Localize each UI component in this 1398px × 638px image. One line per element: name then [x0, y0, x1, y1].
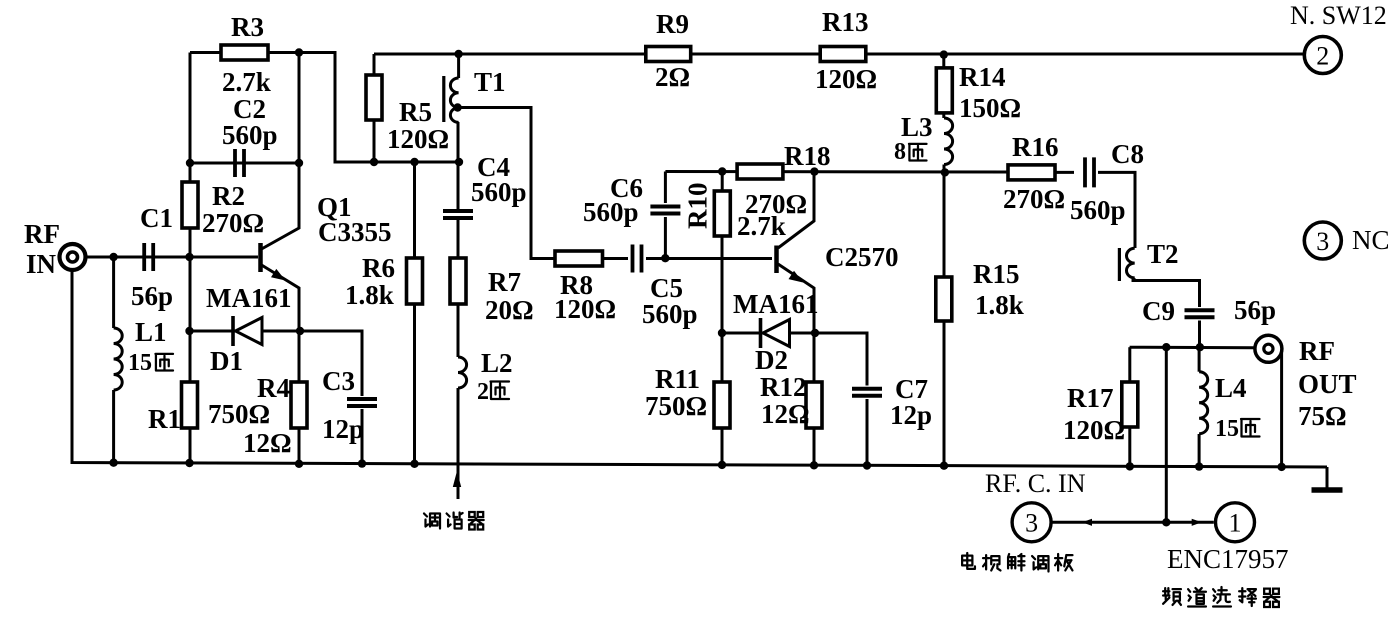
junction R18 left	[718, 167, 726, 175]
svg-text:MA161: MA161	[206, 283, 291, 313]
junction base/R2	[185, 253, 193, 261]
rail junction R15	[940, 462, 948, 470]
junction D1/emitter	[296, 327, 304, 335]
svg-text:ENC17957: ENC17957	[1167, 544, 1289, 574]
svg-text:560p: 560p	[642, 299, 698, 329]
svg-text:560p: 560p	[222, 120, 278, 150]
svg-text:L3: L3	[901, 112, 933, 142]
resistor R8	[555, 251, 603, 266]
svg-text:R7: R7	[488, 267, 521, 297]
wire R10 bottom crossing base	[721, 236, 724, 333]
arrow toward terminal 1	[1192, 519, 1202, 526]
wire C3 bottom	[361, 409, 364, 464]
junction top rail T1	[454, 50, 462, 58]
svg-text:RF. C. IN: RF. C. IN	[985, 469, 1086, 498]
svg-text:2.7k: 2.7k	[737, 211, 786, 241]
wire R6 top	[413, 162, 416, 258]
wire R14 top	[942, 55, 945, 68]
svg-text:C1: C1	[140, 203, 173, 233]
inductor L1	[114, 328, 123, 390]
wire R15 top	[943, 172, 946, 277]
rail junction C3	[358, 459, 366, 467]
svg-text:R11: R11	[655, 364, 700, 394]
wire pin1 net vertical	[1165, 347, 1168, 522]
svg-text:C3: C3	[322, 366, 355, 396]
label L2 value zha	[491, 382, 510, 400]
wire D1 net to C3	[190, 331, 363, 396]
svg-text:R3: R3	[231, 12, 264, 42]
label L1 value zha	[155, 354, 173, 371]
rail junction L4	[1195, 462, 1203, 470]
svg-text:R9: R9	[656, 9, 689, 39]
resistor R14	[936, 68, 952, 113]
wire R3 line to bias bus	[190, 53, 459, 163]
resistor R1	[182, 382, 198, 428]
transistor Q1 emitter arrow	[271, 269, 286, 281]
resistor R3	[221, 45, 268, 60]
terminal 1 ENC17957	[1216, 503, 1255, 542]
svg-text:120Ω: 120Ω	[815, 64, 877, 94]
wire R14 to L3	[942, 113, 945, 118]
svg-text:R5: R5	[399, 97, 432, 127]
svg-text:1: 1	[1229, 509, 1242, 538]
label L3 value zha	[909, 144, 927, 161]
wire L1 bottom	[112, 390, 115, 463]
svg-text:R13: R13	[822, 7, 869, 37]
svg-text:R2: R2	[212, 181, 245, 211]
svg-text:120Ω: 120Ω	[387, 124, 449, 154]
wire R10 top	[721, 172, 724, 192]
wire left branch x=190 (R2/R1 chain)	[189, 53, 192, 464]
wire R8 to C5	[603, 257, 629, 260]
svg-text:15: 15	[128, 350, 152, 376]
svg-text:560p: 560p	[1070, 195, 1126, 225]
junction C5/C6	[661, 254, 669, 262]
capacitor C2	[235, 149, 244, 177]
svg-text:R17: R17	[1067, 383, 1114, 413]
wire R18 bias net	[665, 170, 1008, 174]
wire Q2 collector	[778, 172, 814, 248]
terminal 3 RF.C.IN	[1012, 503, 1051, 542]
wire C7 bottom	[866, 399, 869, 466]
svg-text:L4: L4	[1215, 373, 1247, 403]
capacitor C3	[347, 399, 377, 406]
svg-text:R12: R12	[760, 372, 807, 402]
resistor R7	[450, 258, 466, 304]
rail junction R1	[185, 459, 193, 467]
wire Q1 base net	[86, 256, 259, 259]
svg-text:15: 15	[1215, 416, 1239, 442]
svg-text:C8: C8	[1111, 139, 1144, 169]
resistor R4	[291, 382, 307, 428]
wire C5 to Q2 base	[646, 257, 772, 260]
transformer T1 winding	[450, 78, 458, 122]
wire R12 bottom	[813, 428, 816, 465]
svg-text:75Ω: 75Ω	[1298, 401, 1347, 431]
RF IN connector	[60, 244, 86, 270]
wire Q1 emitter to rail	[262, 265, 300, 464]
svg-text:12p: 12p	[322, 414, 364, 444]
resistor R15	[936, 277, 952, 321]
svg-text:L1: L1	[135, 317, 167, 347]
wire RF OUT net	[1130, 346, 1254, 350]
wire T1 top	[457, 54, 460, 78]
svg-text:2.7k: 2.7k	[222, 67, 271, 97]
svg-text:2Ω: 2Ω	[655, 62, 690, 92]
svg-text:T1: T1	[474, 67, 506, 97]
svg-text:20Ω: 20Ω	[485, 295, 534, 325]
wire C4 to R7	[457, 218, 460, 258]
terminal 2 N.SW12	[1304, 37, 1341, 74]
svg-text:R14: R14	[959, 62, 1006, 92]
junction C2 right	[295, 159, 303, 167]
bottom ground rail	[72, 271, 1327, 468]
wire Q2 emitter	[778, 264, 814, 333]
RF OUT connector	[1255, 335, 1282, 362]
svg-text:750Ω: 750Ω	[208, 399, 270, 429]
svg-text:12Ω: 12Ω	[243, 428, 292, 458]
transformer T1 core bar	[442, 76, 445, 122]
capacitor C5	[633, 245, 642, 273]
resistor R13	[820, 47, 866, 62]
resistor R11	[714, 382, 730, 428]
wire R16 to C8	[1055, 171, 1074, 174]
svg-text:D1: D1	[210, 346, 243, 376]
svg-text:270Ω: 270Ω	[202, 208, 264, 238]
wire C8 to T2	[1098, 172, 1135, 248]
wire L4 bottom	[1198, 434, 1201, 467]
svg-text:120Ω: 120Ω	[1063, 415, 1125, 445]
resistor R5	[366, 75, 382, 120]
capacitor C6	[650, 207, 680, 214]
svg-text:270Ω: 270Ω	[1003, 184, 1065, 214]
resistor R6	[407, 258, 423, 304]
label tuner chars	[424, 514, 440, 529]
capacitor C7	[852, 389, 882, 396]
wire C6 bottom branch	[664, 217, 667, 258]
arrow toward terminal 3	[1082, 519, 1092, 526]
junction connector link	[1162, 518, 1170, 526]
svg-text:150Ω: 150Ω	[959, 93, 1021, 123]
rail junction R6	[410, 460, 418, 468]
svg-text:OUT: OUT	[1298, 369, 1357, 399]
inductor L3	[944, 118, 953, 165]
svg-text:1.8k: 1.8k	[975, 290, 1024, 320]
transistor Q1 base bar	[258, 243, 263, 272]
inductor L2	[458, 357, 467, 388]
T2 winding exit wire	[1132, 278, 1135, 281]
resistor R12	[806, 382, 822, 428]
inductor L4	[1199, 372, 1208, 434]
junction T1 tap	[453, 103, 461, 111]
svg-text:IN: IN	[26, 249, 57, 279]
wire R5 top	[373, 54, 376, 75]
svg-text:R10: R10	[683, 183, 713, 230]
label tv demod chars	[962, 553, 975, 569]
wire T1 tap to R8	[458, 108, 555, 259]
diode D1 MA161	[231, 316, 235, 346]
svg-text:12Ω: 12Ω	[761, 399, 810, 429]
resistor R18	[737, 164, 783, 179]
wire R7 to L2	[457, 304, 460, 357]
wire L2 to tuner stub	[457, 388, 460, 499]
wire L4 top	[1198, 347, 1201, 372]
wire RF OUT shell to ground	[1280, 353, 1283, 467]
rail junction R17	[1126, 462, 1134, 470]
transformer T2 winding	[1126, 248, 1134, 278]
wire D2 net to C7	[722, 333, 867, 386]
resistor R17	[1122, 382, 1138, 427]
rail junction R11	[718, 461, 726, 469]
label channel selector chars	[1163, 588, 1181, 605]
wire C2 branch	[190, 162, 299, 165]
capacitor C1	[144, 243, 153, 271]
rail junction L1	[109, 459, 117, 467]
svg-text:RF: RF	[24, 219, 60, 249]
svg-text:750Ω: 750Ω	[645, 391, 707, 421]
wire R12 top	[813, 333, 816, 382]
svg-text:R16: R16	[1012, 132, 1059, 162]
svg-text:C2570: C2570	[825, 242, 899, 272]
capacitor C4	[443, 211, 473, 218]
resistor R2	[182, 182, 198, 228]
transformer T2 core bar	[1118, 248, 1121, 281]
junction top rail R14	[940, 50, 948, 58]
rail junction C7	[863, 461, 871, 469]
svg-text:1.8k: 1.8k	[345, 280, 394, 310]
svg-text:D2: D2	[755, 345, 788, 375]
svg-text:R1: R1	[148, 404, 181, 434]
junction R6 top	[410, 158, 418, 166]
svg-text:56p: 56p	[1234, 295, 1276, 325]
junction C9 / L4	[1196, 343, 1204, 351]
wire C6 top branch	[664, 172, 667, 204]
svg-text:2: 2	[1316, 42, 1329, 71]
svg-text:N. SW12: N. SW12	[1290, 1, 1387, 30]
junction bias bus / C4 chain	[455, 158, 463, 166]
capacitor C8	[1085, 157, 1094, 187]
wire R11 bottom	[721, 428, 724, 465]
junction D1 left	[185, 327, 193, 335]
resistor R10	[714, 191, 730, 236]
svg-text:560p: 560p	[583, 197, 639, 227]
junction C2 left	[186, 159, 194, 167]
svg-text:120Ω: 120Ω	[554, 294, 616, 324]
rail junction RF OUT shell	[1277, 463, 1285, 471]
svg-text:C9: C9	[1142, 296, 1175, 326]
junction RF OUT net / pin1	[1162, 343, 1170, 351]
rail junction R12	[810, 461, 818, 469]
svg-text:3: 3	[1316, 227, 1329, 256]
junction L3 node	[941, 168, 949, 176]
wire connector 3-1 link	[1052, 521, 1214, 524]
svg-text:MA161: MA161	[733, 289, 818, 319]
wire L1 top	[112, 257, 115, 328]
wire R17 bottom	[1128, 427, 1131, 466]
top supply rail wire	[374, 53, 1303, 56]
wire R6 bottom	[413, 304, 416, 464]
rail junction R4	[295, 460, 303, 468]
junction D2 left	[718, 329, 726, 337]
junction base/L1	[109, 253, 117, 261]
resistor R16	[1008, 165, 1055, 180]
junction R18 right / Q2 collector	[810, 167, 818, 175]
junction R5 bottom	[370, 158, 378, 166]
svg-text:8: 8	[894, 139, 906, 165]
junction D2 / emitter	[811, 329, 819, 337]
junction R3/collector	[295, 48, 303, 56]
wire L3 bottom	[943, 165, 946, 173]
capacitor C9	[1185, 310, 1215, 317]
svg-text:C3355: C3355	[318, 217, 392, 247]
resistor R9	[646, 47, 691, 62]
svg-text:3: 3	[1025, 509, 1038, 538]
wire R11 top	[721, 333, 724, 382]
diode D2 MA161	[759, 318, 763, 348]
svg-text:R15: R15	[973, 259, 1020, 289]
wire R15 bottom	[943, 321, 946, 466]
svg-text:RF: RF	[1299, 336, 1335, 366]
wire R5 bottom	[373, 120, 376, 162]
svg-text:56p: 56p	[131, 281, 173, 311]
svg-text:R6: R6	[362, 253, 395, 283]
svg-text:R18: R18	[784, 141, 831, 171]
svg-text:L2: L2	[481, 348, 513, 378]
svg-text:12p: 12p	[890, 400, 932, 430]
svg-text:NC: NC	[1352, 225, 1390, 255]
svg-text:560p: 560p	[471, 177, 527, 207]
wire T2 to C9	[1132, 281, 1200, 308]
wire Q1 collector	[262, 163, 300, 249]
ground stub	[1326, 467, 1329, 488]
svg-text:2: 2	[477, 379, 489, 405]
arrow to tuner	[453, 471, 461, 487]
wire C9 bottom	[1198, 321, 1201, 348]
transistor Q2 base bar	[774, 246, 779, 274]
svg-text:T2: T2	[1147, 239, 1179, 269]
wire R17 top	[1128, 347, 1131, 382]
wire Q1 collector vertical upper	[298, 53, 301, 164]
terminal 3 NC	[1304, 222, 1341, 259]
wire T1 to C4	[457, 122, 460, 211]
transistor Q2 emitter arrow	[789, 271, 804, 283]
label L4 value zha	[1241, 419, 1260, 437]
